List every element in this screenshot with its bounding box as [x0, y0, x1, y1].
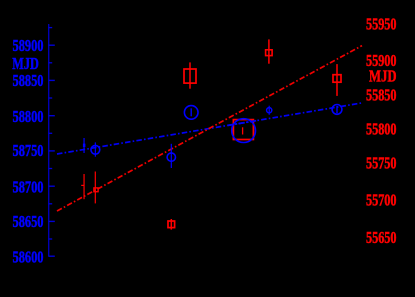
big red square highlight at x=243 — [233, 120, 253, 140]
red errorbar inside big square — [242, 127, 244, 134]
red square point at x=171 — [170, 219, 172, 230]
blue circle point at x=95 — [94, 142, 96, 156]
svg-text:55950: 55950 — [366, 15, 397, 34]
right axis tick labels (red) — [366, 15, 397, 247]
svg-text:58650: 58650 — [13, 212, 44, 231]
red errorbar point at x=84 — [81, 174, 84, 199]
blue errorbar point at x=84 — [83, 138, 85, 153]
svg-text:MJD: MJD — [369, 67, 397, 86]
svg-text:58700: 58700 — [13, 177, 44, 196]
red square point at x=337 — [336, 64, 338, 96]
red square point at x=95 — [94, 172, 96, 204]
svg-text:58750: 58750 — [13, 141, 44, 160]
svg-text:55750: 55750 — [366, 154, 397, 173]
svg-text:55800: 55800 — [366, 119, 397, 138]
left y-axis line (blue) — [48, 24, 50, 257]
big blue circle highlight at x=243 (drawn over square) — [232, 119, 256, 143]
blue small circle point at x=269 — [268, 106, 270, 115]
left axis tick labels (blue) — [12, 36, 43, 267]
red square point at x=190 — [189, 62, 191, 88]
blue trend line (dash-dot) — [57, 103, 362, 154]
blue circle point at x=171 — [170, 144, 172, 168]
red square point at x=269 — [268, 39, 270, 63]
red trend line (dash-dot) — [57, 46, 362, 211]
blue circle point at x=191 — [190, 108, 192, 116]
svg-text:58900: 58900 — [13, 36, 44, 55]
svg-text:58850: 58850 — [13, 71, 44, 90]
svg-text:58600: 58600 — [13, 248, 44, 267]
blue trend line dash over big circle — [228, 120, 258, 125]
svg-text:55850: 55850 — [366, 85, 397, 104]
blue circle point at x=337 — [336, 106, 338, 113]
svg-text:55700: 55700 — [366, 191, 397, 210]
svg-text:58800: 58800 — [13, 107, 44, 126]
svg-text:55650: 55650 — [366, 228, 397, 247]
major ticks left axis — [49, 45, 55, 256]
minor ticks left axis — [49, 28, 53, 239]
